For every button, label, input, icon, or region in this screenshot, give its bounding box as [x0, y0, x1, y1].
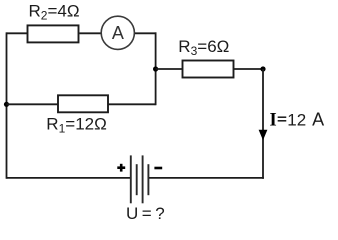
wire middle branch right	[109, 103, 156, 105]
resistor R3	[183, 61, 234, 78]
wire to R3	[156, 68, 182, 70]
wire middle branch left	[7, 103, 58, 105]
wire inner right vertical	[155, 32, 157, 105]
svg-text:U = ?: U = ?	[126, 204, 164, 223]
resistor R2	[28, 25, 79, 42]
wire outer right vertical	[262, 69, 264, 179]
wire bottom right	[149, 177, 264, 179]
battery plus sign	[117, 164, 125, 172]
ammeter A	[101, 16, 134, 49]
svg-text:R3=6Ω: R3=6Ω	[178, 37, 229, 58]
node junction inner right	[153, 66, 158, 71]
battery plate long right	[142, 155, 144, 203]
battery plate short left	[136, 164, 138, 195]
current arrow I	[259, 130, 268, 141]
resistor R1	[58, 95, 108, 112]
svg-text:A: A	[112, 23, 124, 43]
svg-text:R1=12Ω: R1=12Ω	[46, 115, 107, 136]
wire R3 to right node	[234, 68, 264, 70]
node junction outer right	[260, 66, 265, 71]
svg-text:R2=4Ω: R2=4Ω	[29, 2, 80, 23]
battery plate short right	[147, 164, 149, 195]
node junction left	[4, 102, 9, 107]
battery minus sign	[154, 167, 162, 170]
wire bottom left	[7, 177, 131, 179]
battery plate long left	[130, 155, 132, 203]
wire top-left horizontal	[7, 32, 28, 34]
svg-text:I=12A: I=12A	[270, 110, 325, 131]
wire R2 to ammeter	[80, 32, 102, 34]
wire left vertical	[6, 32, 8, 178]
wire ammeter to right corner	[135, 32, 157, 34]
